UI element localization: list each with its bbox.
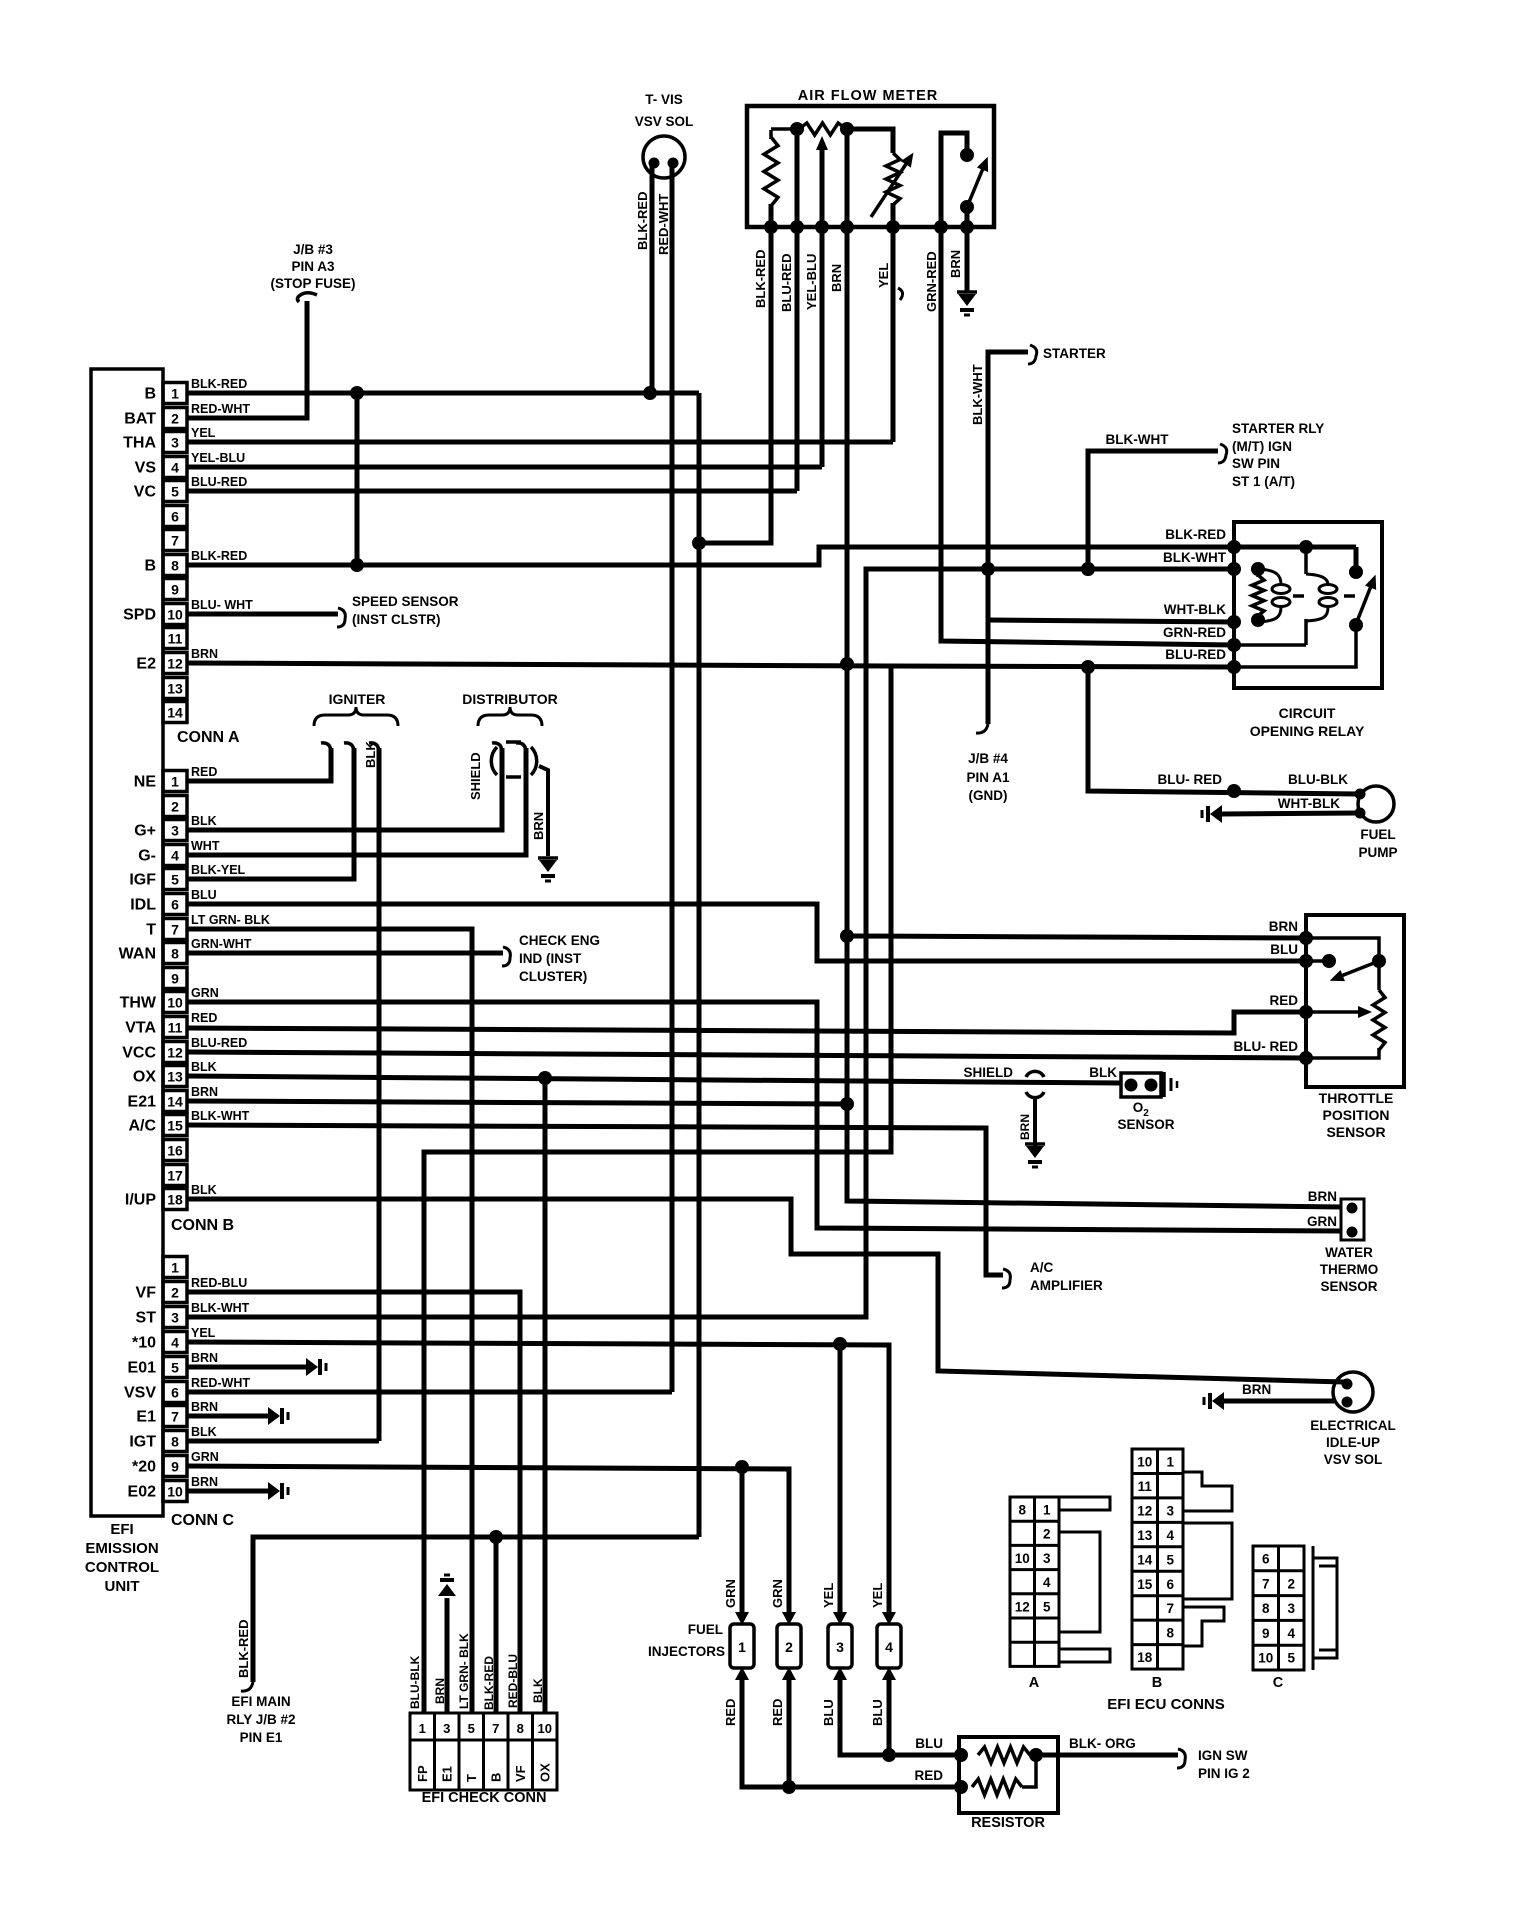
svg-text:RESISTOR: RESISTOR [971,1815,1045,1831]
ECU connector B pin 3 box [163,820,187,841]
ECU connector A pin 2 box [163,408,187,429]
svg-text:8: 8 [1262,1601,1270,1616]
wire BRN from C7 (E1) to ground [187,1414,268,1419]
distributor brace [478,707,542,726]
svg-text:FUEL: FUEL [688,1622,723,1637]
AFM potentiometer resistor [886,153,900,205]
ECU connector B pin 9 box [163,968,187,989]
ECU connector B pin 11 box [163,1017,187,1038]
svg-text:VTA: VTA [125,1020,156,1037]
svg-text:BLU: BLU [821,1699,836,1726]
distributor hook 2 [516,743,526,751]
svg-text:18: 18 [1137,1650,1153,1665]
TPS idle switch stub dot [1322,954,1336,968]
wire injector 4 return [887,1680,892,1755]
wire BLU-RED from A5 (VC) to air flow meter [187,489,797,494]
svg-text:BLK-RED: BLK-RED [191,377,247,391]
svg-text:IDLE-UP: IDLE-UP [1326,1435,1380,1450]
svg-text:E1: E1 [136,1409,156,1426]
svg-text:4: 4 [1166,1528,1174,1543]
svg-text:CONN A: CONN A [177,729,240,746]
svg-text:BRN: BRN [191,1400,218,1414]
svg-text:STARTER: STARTER [1043,346,1106,361]
svg-text:BRN: BRN [191,647,218,661]
wire RED from B11 (VTA) to throttle position sensor [187,1012,1306,1033]
svg-text:T- VIS: T- VIS [645,92,683,107]
svg-text:(INST CLSTR): (INST CLSTR) [352,612,441,627]
wire BLK-WHT from C3 (ST) to relay BLK-WHT [187,569,1234,1317]
wire injector 3 feed drop [838,1344,843,1614]
AFM flow arrow (YEL-BLU) [820,148,825,467]
junction dot BLK-RED to AFM branch [692,536,706,550]
relay coil resistor [1252,575,1264,616]
TPS internal top wire [1306,938,1379,990]
ECU connector B pin 5 box [163,869,187,890]
relay coil 1 wires [1258,569,1281,585]
svg-text:14: 14 [1137,1552,1153,1567]
svg-text:4: 4 [885,1639,893,1655]
wire BLK-RED check conn B [494,1537,499,1713]
svg-text:12: 12 [167,656,183,672]
svg-text:(GND): (GND) [969,788,1008,803]
wire BLK-RED from T-VIS VSV to B wire [650,166,655,393]
svg-text:RED: RED [770,1699,785,1726]
svg-text:BRN: BRN [1242,1382,1271,1397]
svg-text:THW: THW [120,995,157,1012]
wire BLK-WHT to starter relay [1088,451,1218,569]
ECU connector B pin 14 box [163,1091,187,1112]
wire BLK from B3 (G+) to distributor [187,748,502,830]
svg-text:SENSOR: SENSOR [1117,1117,1174,1132]
svg-text:CONN B: CONN B [171,1217,234,1234]
ECU connector A pin 1 box [163,383,187,404]
svg-text:*10: *10 [132,1335,156,1352]
svg-text:14: 14 [167,1094,183,1110]
igniter BLK wire to IGT [377,748,382,1441]
ECU connector C pin 1 box [163,1257,187,1278]
ECU connector A pin 7 box [163,530,187,551]
AFM bottom terminal dot x=967 [960,220,974,234]
svg-text:1: 1 [738,1639,746,1655]
svg-text:IGF: IGF [129,872,156,889]
svg-text:RED: RED [191,765,217,779]
ECU connector B pin 1 box [163,771,187,792]
svg-text:3: 3 [171,1310,179,1326]
check conn column divider 4 [507,1713,510,1790]
svg-text:SHIELD: SHIELD [468,752,483,800]
svg-text:OX: OX [538,1763,553,1782]
resistor output junction dot [1029,1748,1043,1762]
svg-text:RED: RED [914,1768,943,1783]
relay switch blade [1356,586,1371,624]
svg-text:7: 7 [1166,1601,1174,1616]
wire BRN from C10 (E02) to ground [187,1489,268,1494]
svg-text:BRN: BRN [191,1351,218,1365]
ECU connector B pin 17 box [163,1165,187,1186]
svg-text:BLK: BLK [191,1425,217,1439]
idle-up VSV terminal dots [1342,1379,1353,1390]
svg-text:T: T [464,1774,479,1782]
svg-text:4: 4 [1287,1626,1295,1641]
svg-text:GRN: GRN [191,1450,219,1464]
AFM BRN column inside [845,129,850,227]
junction dot starter relay tap [1081,562,1095,576]
ECU connector A pin 6 box [163,506,187,527]
AFM BRN ground wire [965,227,970,292]
svg-text:SENSOR: SENSOR [1320,1279,1377,1294]
svg-text:OPENING RELAY: OPENING RELAY [1250,723,1365,739]
junction dot T-VIS BLK-RED [643,386,657,400]
ground E02 [268,1482,280,1500]
junction dot injector 1 feed [735,1460,749,1474]
svg-text:16: 16 [167,1143,183,1159]
connector squiggle J/B No.3 [298,293,318,302]
svg-text:11: 11 [1138,1479,1153,1494]
junction dot BLU-BLK [1227,784,1241,798]
svg-text:BLU-BLK: BLU-BLK [1288,772,1348,787]
svg-text:BLK-WHT: BLK-WHT [1106,432,1170,447]
svg-text:E2: E2 [136,656,156,673]
svg-text:8: 8 [171,1434,179,1450]
svg-text:BRN: BRN [531,812,546,840]
wire BLK-ORG to ignition switch [1036,1753,1178,1758]
O2 sensor shell bars [1162,1072,1166,1097]
relay switch bottom link [1234,625,1356,667]
svg-text:BLK: BLK [191,814,217,828]
wire RED-WHT from A2 (BAT) to stop fuse [187,301,307,418]
svg-text:5: 5 [171,484,179,500]
conn A housing bottom tab [1059,1649,1110,1662]
connector squiggle ign switch [1177,1749,1185,1768]
circuit opening relay box [1234,522,1382,688]
igniter hook 1 [321,743,331,751]
fuel injector 2 body [777,1624,801,1668]
svg-text:BLK-WHT: BLK-WHT [191,1301,250,1315]
wire BRN check conn E1 to ground [445,1598,450,1713]
svg-text:B: B [489,1773,504,1782]
svg-text:BLU-RED: BLU-RED [191,475,247,489]
check conn column divider 3 [482,1713,485,1790]
wire BLK-RED branch to AFM compensation resistor [699,204,771,543]
ground O2 shield [1025,1142,1045,1146]
resistor element top [978,1747,1030,1763]
O2 shield arc bottom [1026,1092,1044,1098]
svg-text:6: 6 [171,509,179,525]
svg-text:15: 15 [167,1118,183,1134]
svg-text:I/UP: I/UP [125,1192,156,1209]
ECU connector B pin 6 box [163,894,187,915]
wire BLK-YEL from B5 (IGF) to igniter [187,748,354,879]
svg-text:GRN: GRN [1307,1214,1337,1229]
svg-text:BAT: BAT [124,411,156,428]
svg-text:SPEED SENSOR: SPEED SENSOR [352,594,459,609]
svg-text:2: 2 [171,1285,179,1301]
conn B housing middle [1183,1523,1232,1599]
svg-text:YEL: YEL [821,1583,836,1608]
TPS pin dot RED [1299,1005,1313,1019]
connector squiggle J/B No.4 [976,724,988,733]
fuel injector 1 body [730,1624,754,1668]
svg-text:1: 1 [1166,1455,1174,1470]
ECU connector B pin 12 box [163,1042,187,1063]
svg-text:YEL: YEL [191,1326,216,1340]
svg-text:BLU- WHT: BLU- WHT [191,598,253,612]
AFM bottom terminal dot x=847 [840,220,854,234]
injector 3 top plug [833,1612,847,1625]
relay switch contact bottom dot [1349,618,1363,632]
svg-text:G-: G- [138,848,156,865]
svg-text:J/B #4: J/B #4 [968,751,1008,766]
svg-text:13: 13 [1137,1528,1153,1543]
wire BLU-RED relay to fuel pump [1088,667,1358,794]
svg-text:6: 6 [1166,1577,1174,1592]
relay coil 2 wires [1304,547,1308,574]
svg-text:BLU- RED: BLU- RED [1234,1039,1299,1054]
connector squiggle speed sensor [337,608,345,627]
svg-text:C: C [1273,1675,1284,1691]
connector squiggle starter [1028,345,1037,364]
svg-text:10: 10 [1015,1551,1030,1566]
svg-text:SHIELD: SHIELD [963,1065,1013,1080]
wire GRN-WHT from B8 (WAN) to check engine lamp [187,951,503,956]
svg-text:10: 10 [167,1484,183,1500]
svg-text:BLU-RED: BLU-RED [191,1036,247,1050]
svg-text:BLK-RED: BLK-RED [753,250,768,309]
AFM potentiometer column bottom [891,203,896,442]
ground check conn E1 [438,1584,456,1596]
svg-text:VF: VF [513,1765,528,1782]
svg-text:B: B [1152,1675,1162,1691]
svg-text:YEL: YEL [876,263,891,288]
svg-text:SW PIN: SW PIN [1232,456,1280,471]
svg-text:1: 1 [419,1721,426,1736]
wire BLU-WHT from A10 (SPD) to speed sensor [187,612,338,617]
svg-text:BRN: BRN [1308,1189,1337,1204]
svg-text:GRN-RED: GRN-RED [924,251,939,312]
svg-text:LT GRN- BLK: LT GRN- BLK [191,913,270,927]
wire BLK check conn OX [543,1078,548,1713]
svg-text:BRN: BRN [829,264,844,292]
svg-text:17: 17 [167,1168,183,1184]
svg-text:EFI MAIN: EFI MAIN [231,1694,290,1709]
ECU connector B pin 7 box [163,919,187,940]
svg-text:5: 5 [1166,1552,1174,1567]
wire injector 2 return [787,1680,792,1787]
svg-text:8: 8 [171,946,179,962]
wire BLU-RED from B12 (VCC) to throttle position sensor [187,1052,1306,1058]
svg-text:IGT: IGT [129,1434,156,1451]
wire vertical BLK-RED down to EFI main relay [697,393,702,1537]
conn A housing middle [1059,1532,1100,1632]
svg-text:8: 8 [517,1721,524,1736]
AFM switch contact dot bottom [960,200,974,214]
svg-text:ST: ST [136,1310,157,1327]
wire RED-WHT from T-VIS VSV down to VSV pin [670,166,675,1392]
ECU connector B pin 2 box [163,796,187,817]
svg-text:BLK: BLK [531,1678,545,1703]
svg-text:BLU-BLK: BLU-BLK [408,1655,422,1709]
svg-text:THA: THA [123,435,156,452]
wire RED-BLU from C2 (VF) to check connector [187,1292,520,1713]
junction dot E21/BRN trunk [840,1097,854,1111]
ECU connector B pin 8 box [163,943,187,964]
svg-text:5: 5 [171,1360,179,1376]
svg-text:THERMO: THERMO [1320,1262,1379,1277]
svg-text:PIN A1: PIN A1 [966,770,1010,785]
wire BLK from B18 (I/UP) to idle-up VSV [187,1199,1344,1382]
ECU connector B pin 4 box [163,845,187,866]
svg-text:BRN: BRN [191,1085,218,1099]
AFM switch column bottom [965,207,970,227]
svg-text:7: 7 [171,533,179,549]
ground AFM BRN [957,290,977,294]
svg-text:POSITION: POSITION [1323,1107,1390,1123]
svg-text:VS: VS [135,460,157,477]
svg-text:BLK- ORG: BLK- ORG [1069,1736,1136,1751]
water thermo sensor body [1341,1199,1364,1240]
ECU connector C pin 2 box [163,1282,187,1303]
ECU connector C pin 6 box [163,1382,187,1403]
svg-text:1: 1 [171,1260,179,1276]
svg-text:EFI: EFI [110,1521,133,1538]
svg-text:BLK: BLK [1089,1065,1117,1080]
svg-text:6: 6 [1262,1552,1270,1567]
wire WHT-BLK from J/B ground to relay [988,620,1234,622]
TPS pin dot BLU [1299,954,1313,968]
O2 shield drain wire [1033,1096,1037,1146]
svg-text:6: 6 [171,1385,179,1401]
svg-text:7: 7 [492,1721,499,1736]
svg-text:CIRCUIT: CIRCUIT [1279,705,1336,721]
ECU connector A pin 14 box [163,702,187,723]
wire injector 1 return [742,1680,959,1787]
wire BLK from C8 (IGT) to igniter [187,1439,379,1444]
svg-text:E01: E01 [128,1360,157,1377]
svg-text:IND (INST: IND (INST [519,951,582,966]
svg-text:8: 8 [1166,1626,1174,1641]
wire BRN sensor ground trunk (AFM to water thermo) [847,129,1341,1207]
svg-text:BLU: BLU [915,1736,943,1751]
svg-text:FUEL: FUEL [1360,827,1395,842]
TPS wiper arrow [1306,1010,1360,1014]
ECU connector C pin 7 box [163,1406,187,1427]
svg-text:IGNITER: IGNITER [329,691,386,707]
svg-text:4: 4 [171,460,179,476]
svg-text:AMPLIFIER: AMPLIFIER [1030,1278,1103,1293]
AFM bottom terminal dot x=797 [790,220,804,234]
junction dot starter/BLK-WHT relay wire [981,562,995,576]
svg-text:2: 2 [1043,1527,1051,1542]
svg-text:BLK-RED: BLK-RED [1165,527,1226,542]
svg-text:THROTTLE: THROTTLE [1319,1090,1394,1106]
svg-text:EMISSION: EMISSION [85,1540,158,1557]
fuel injector 3 body [828,1624,852,1668]
AFM wire to potentiometer [847,129,893,153]
TPS potentiometer resistor [1373,990,1385,1050]
svg-text:VSV: VSV [124,1385,156,1402]
relay coil 1 core dash [1293,594,1304,598]
air flow meter box [747,106,994,227]
junction dot AFM right [840,122,854,136]
relay coil 2 [1319,585,1337,594]
distributor hook 1 [492,743,502,751]
ground E1 [268,1407,280,1425]
svg-text:GRN-WHT: GRN-WHT [191,937,252,951]
svg-text:*20: *20 [132,1459,156,1476]
svg-text:FP: FP [415,1765,430,1782]
junction dot A1/A8 tie [350,386,364,400]
svg-text:PIN E1: PIN E1 [240,1730,283,1745]
solenoid T-VIS VSV body [643,136,685,178]
relay switch top link [1354,547,1359,572]
check conn column divider 1 [433,1713,436,1790]
injector 1 top plug [735,1612,749,1625]
ground E01 [306,1358,318,1376]
AFM switch contact dot top [960,148,974,162]
svg-text:2: 2 [785,1639,793,1655]
junction dot injector 3 feed [833,1337,847,1351]
svg-text:CONN C: CONN C [171,1512,235,1529]
svg-text:A/C: A/C [1030,1260,1054,1275]
wire BRN shield drain [539,766,548,856]
AFM bottom terminal dot x=941 [934,220,948,234]
check conn column divider 5 [531,1713,534,1790]
svg-text:BRN: BRN [1269,919,1298,934]
svg-text:4: 4 [171,1335,179,1351]
svg-text:6: 6 [171,897,179,913]
wire BRN from C5 (E01) to ground [187,1365,306,1370]
wire BLK-RED from A1 (B) to junction column [187,391,699,396]
ECU connector B pin 15 box [163,1115,187,1136]
wire WHT-BLK ground to fuel pump [1222,813,1358,814]
svg-text:RED: RED [1269,993,1298,1008]
injector 3 bottom plug [833,1667,847,1680]
resistor box [959,1737,1058,1813]
svg-text:J/B #3: J/B #3 [293,242,333,257]
injector 4 top plug [882,1612,896,1625]
svg-text:10: 10 [1137,1455,1152,1470]
svg-text:BRN: BRN [433,1678,447,1704]
svg-text:3: 3 [171,823,179,839]
svg-text:IGN SW: IGN SW [1198,1748,1248,1763]
svg-text:3: 3 [443,1721,450,1736]
svg-text:BLK: BLK [191,1060,217,1074]
fuel pump motor body [1358,786,1394,822]
svg-text:SPD: SPD [123,607,156,624]
svg-text:YEL: YEL [191,426,216,440]
svg-text:IDL: IDL [130,897,156,914]
solenoid electrical idle-up VSV body [1333,1372,1373,1412]
wire YEL from C4 (*10) to injectors 3-4 [187,1342,889,1614]
wire BLK from B13 (OX) to oxygen sensor [187,1076,1121,1083]
svg-text:BLK-YEL: BLK-YEL [191,863,246,877]
wire BLK-RED from A8 (B) to circuit opening relay [187,547,1234,565]
svg-text:CONTROL: CONTROL [85,1559,159,1576]
relay pin dot BLK-WHT [1227,562,1241,576]
junction dot at A8 tie [350,558,364,572]
svg-text:9: 9 [171,971,179,987]
igniter hook 2 [344,743,354,751]
svg-text:VF: VF [136,1285,157,1302]
EFI emission control unit U1 (ECU body) [91,369,163,1516]
AFM switch blade [967,166,984,207]
svg-text:DISTRIBUTOR: DISTRIBUTOR [462,691,557,707]
svg-text:EFI CHECK CONN: EFI CHECK CONN [422,1790,547,1806]
svg-text:2: 2 [171,411,179,427]
svg-text:RED-WHT: RED-WHT [191,402,250,416]
igniter hook 3 [369,743,379,751]
wire injector 1 feed drop [740,1467,745,1614]
